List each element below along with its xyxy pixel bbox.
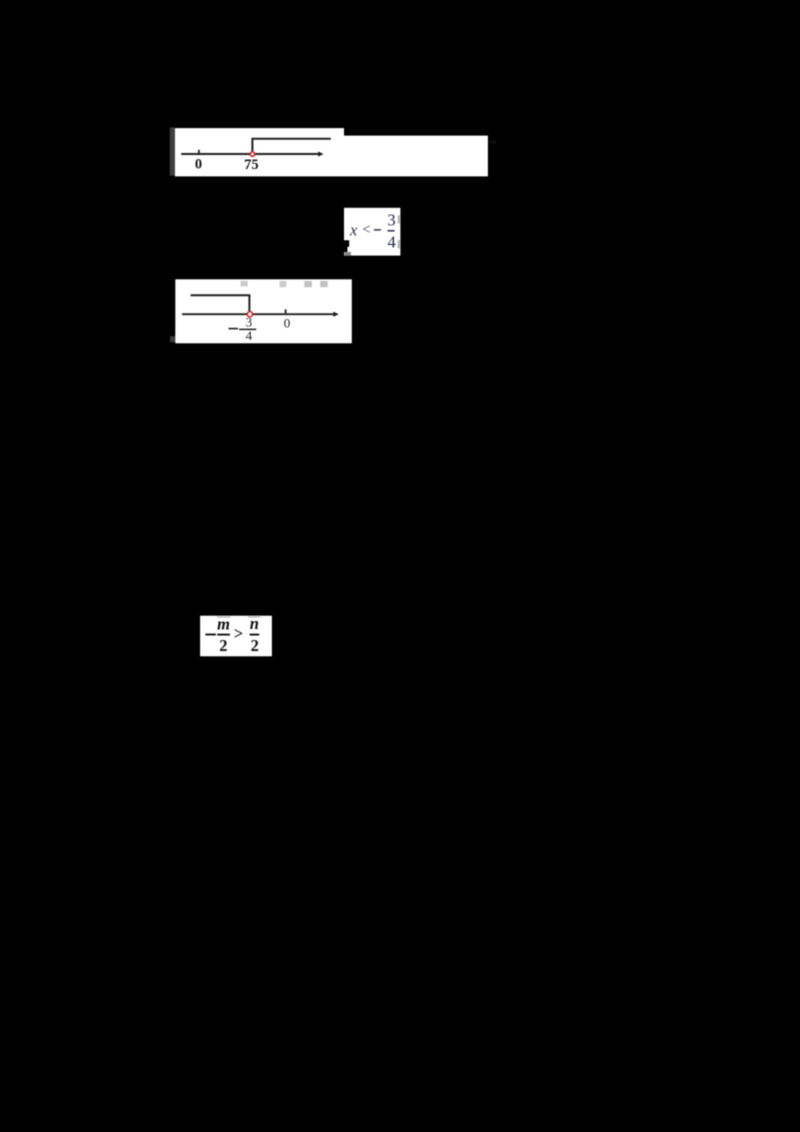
white panel left xyxy=(175,128,344,176)
svg-text:0: 0 xyxy=(195,157,202,173)
ray above axis from 75 rightwards xyxy=(252,139,330,151)
axis arrowhead xyxy=(318,152,323,157)
white panel xyxy=(344,208,400,256)
svg-text:4: 4 xyxy=(246,328,253,343)
fraction bar n/2 xyxy=(250,634,260,636)
top gray square 4 xyxy=(320,281,328,287)
tick at 0 xyxy=(285,309,287,313)
svg-text:>: > xyxy=(234,624,243,643)
ray above axis from -3/4 leftwards xyxy=(191,295,250,311)
svg-text:2: 2 xyxy=(219,636,227,655)
minus sign xyxy=(205,634,216,636)
white panel right xyxy=(344,136,488,177)
white panel xyxy=(200,616,272,657)
diagram 1: number line for x >= 75 xyxy=(170,128,496,177)
gray sidebar bar xyxy=(170,128,175,176)
formula box: -m/2 > n/2 xyxy=(200,614,272,657)
fraction bar m/2 xyxy=(217,634,230,636)
open circle at 75 xyxy=(250,152,254,156)
diagram 2: number line for x < -3/4 xyxy=(170,279,352,343)
top gray square 2 xyxy=(280,281,287,287)
svg-text:m: m xyxy=(217,614,230,633)
axis line xyxy=(182,313,334,315)
top gray square 1 xyxy=(241,281,248,287)
right edge gray mark upper xyxy=(398,215,400,223)
gray strip above n xyxy=(248,616,260,618)
label minus sign xyxy=(229,328,239,330)
gray strip above m xyxy=(217,616,231,618)
open circle at -3/4 xyxy=(247,312,252,317)
black glyph fragment at box lower-left xyxy=(344,240,349,252)
formula box: x < -3/4 xyxy=(344,208,400,256)
svg-text:<: < xyxy=(362,222,370,238)
fraction bar xyxy=(388,230,395,232)
dark gray square outside lower-left corner xyxy=(170,336,176,342)
svg-text:75: 75 xyxy=(244,157,259,173)
white panel xyxy=(175,279,351,343)
axis arrowhead xyxy=(333,312,339,317)
label fraction bar xyxy=(239,328,256,330)
svg-text:0: 0 xyxy=(284,316,291,331)
gray smudge under glyph fragment xyxy=(344,252,351,256)
svg-text:x: x xyxy=(349,220,358,239)
svg-text:n: n xyxy=(250,614,259,633)
tick at 0 xyxy=(198,150,200,153)
right edge gray mark lower xyxy=(398,240,400,248)
minus sign xyxy=(374,229,381,231)
axis line xyxy=(181,153,318,155)
svg-text:2: 2 xyxy=(251,636,259,655)
faint dark smudge right of panel xyxy=(490,140,496,144)
svg-text:4: 4 xyxy=(387,233,395,252)
svg-text:3: 3 xyxy=(387,210,395,229)
top gray square 3 xyxy=(304,281,312,287)
